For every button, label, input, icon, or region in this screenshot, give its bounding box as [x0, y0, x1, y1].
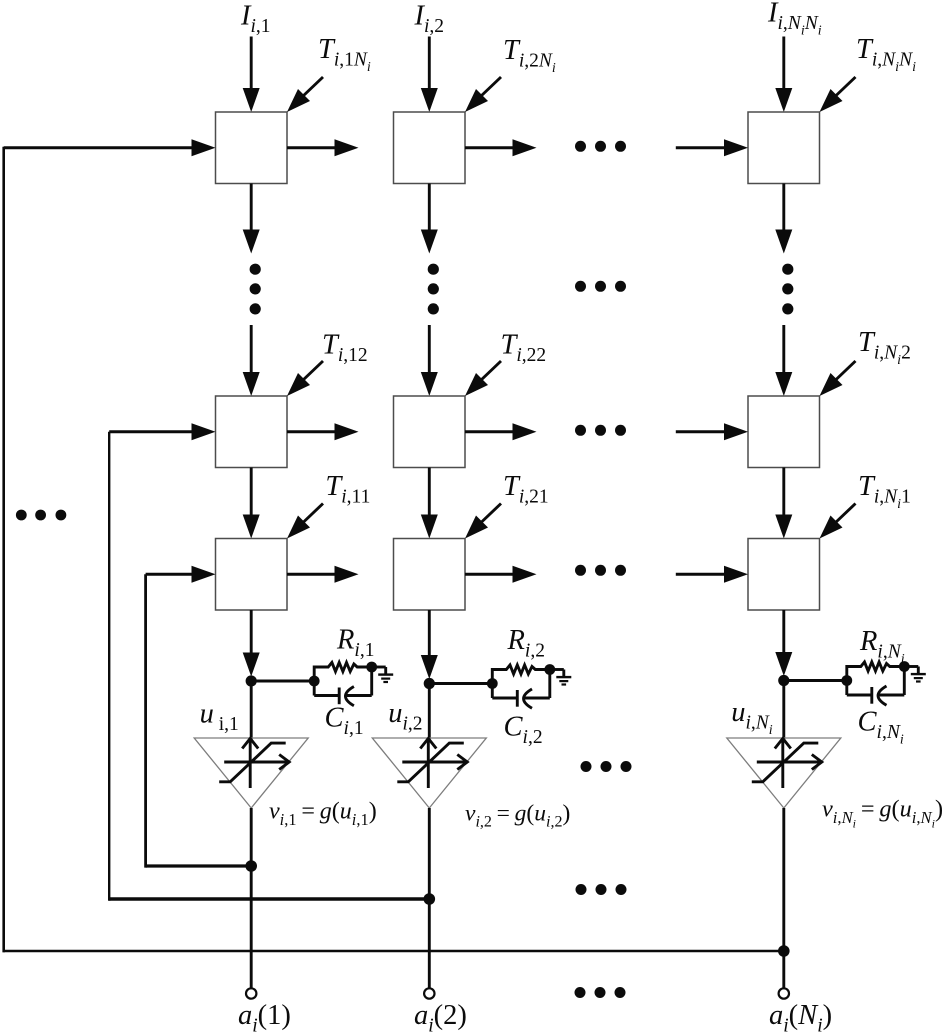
wire input I column 3	[775, 37, 792, 113]
label C_i,3	[858, 707, 904, 748]
multiplier block T row2 col3	[748, 396, 820, 468]
wire dots to block row2 col1	[243, 325, 260, 396]
label T_i,1Ni	[318, 34, 371, 75]
wire block output row1 col2	[465, 139, 537, 156]
arrow T_i,1Ni into block	[287, 77, 323, 112]
RC right junction col3	[899, 661, 910, 672]
label T_i,11	[325, 471, 370, 508]
multiplier block T row1 col3	[748, 112, 820, 184]
op-amp triangle g col3	[727, 738, 841, 808]
wire dots to block row2 col2	[421, 325, 438, 396]
wire into block row3 col3	[676, 566, 748, 583]
horizontal ellipsis	[576, 884, 627, 895]
label T_i,22	[501, 330, 547, 367]
label C_i,2	[504, 712, 543, 749]
wire node to amplifier col3	[782, 681, 785, 741]
multiplier block T row3 col1	[216, 539, 288, 611]
wire block output row1 col1	[287, 139, 359, 156]
feedback arrow into block row1 col1	[4, 139, 216, 156]
multiplier block T row3 col2	[394, 539, 466, 611]
label u_i,1	[200, 699, 239, 736]
multiplier block T row2 col1	[216, 396, 288, 468]
arrow T_i,21 into block	[465, 504, 501, 539]
wire block row1 to dots col1	[243, 184, 260, 254]
label u_i,2	[388, 698, 422, 735]
wire block output row2 col2	[465, 423, 537, 440]
RC right junction col2	[544, 664, 555, 675]
feedback wire from a_i(2) vertical	[108, 432, 110, 901]
arrow T_i,2Ni into block	[465, 77, 501, 112]
label a_i(1)	[238, 1000, 291, 1034]
label C_i,1	[325, 703, 364, 740]
svg-text:ai(2): ai(2)	[414, 1000, 467, 1034]
wire block row2 to block row3 col1	[243, 468, 260, 539]
feedback arrow into block row3 col1	[146, 566, 216, 583]
wire input I column 1	[243, 37, 260, 113]
resistor R_i,2	[492, 665, 550, 684]
wire dots to block row2 col3	[775, 325, 792, 396]
feedback wire a_i(1) horizontal	[146, 864, 252, 867]
arrow T_i,Ni1 into block	[820, 504, 856, 539]
wire amplifier output col3	[782, 808, 785, 988]
ground col1	[372, 667, 394, 682]
input label I_i,NiNi	[767, 0, 822, 39]
RC right junction col1	[366, 662, 377, 673]
feedback wire bottom horizontal	[3, 950, 784, 953]
arrow T_i,11 into block	[287, 504, 323, 539]
multiplier block T row3 col3	[748, 539, 820, 611]
label R_i,1	[336, 625, 374, 662]
wire block output row2 col1	[287, 423, 359, 440]
wire node to amplifier col2	[428, 684, 431, 741]
input label I_i,2	[414, 1, 445, 38]
node u_i,3 junction	[778, 675, 789, 686]
vertical ellipsis col1	[250, 264, 261, 315]
node feedback col2	[424, 893, 436, 905]
label v_i,2 = g(u_i,2)	[465, 801, 570, 831]
horizontal ellipsis	[575, 141, 626, 152]
resistor R_i,1	[314, 663, 372, 682]
arrow T_i,Ni2 into block	[820, 361, 856, 396]
wire block row2 to block row3 col2	[421, 468, 438, 539]
label R_i,3	[859, 626, 905, 667]
feedback wire a_i(2) horizontal	[109, 897, 431, 901]
wire block row3 to node u col2	[421, 610, 438, 679]
wire block row3 to node u col1	[243, 610, 260, 677]
input label I_i,1	[240, 1, 271, 38]
node feedback col3	[778, 945, 790, 957]
op-amp triangle g col1	[194, 738, 308, 808]
multiplier block T row1 col2	[394, 112, 466, 184]
node feedback col1	[245, 860, 257, 872]
left ellipsis	[16, 510, 66, 521]
sigmoid symbol col2	[397, 739, 467, 789]
capacitor C_i,2	[492, 670, 550, 709]
wire node to RC col2	[429, 682, 492, 685]
sigmoid symbol col3	[752, 739, 822, 789]
op-amp triangle g col2	[372, 738, 486, 808]
output terminal a_i(1)	[246, 988, 256, 998]
RC left junction col2	[487, 678, 498, 689]
wire block row1 to dots col3	[775, 184, 792, 254]
wire node to amplifier col1	[250, 681, 253, 740]
horizontal ellipsis	[581, 761, 632, 772]
sigmoid symbol col1	[219, 739, 289, 789]
ground col3	[904, 667, 926, 682]
feedback arrow into block row2 col1	[109, 423, 215, 440]
label T_i,2Ni	[503, 35, 556, 76]
wire block row1 to dots col2	[421, 184, 438, 254]
arrow T_i,NiNi into block	[820, 77, 856, 112]
horizontal ellipsis	[575, 987, 626, 998]
label v_i,1 = g(u_i,1)	[269, 799, 377, 829]
node u_i,2 junction	[424, 678, 435, 689]
output terminal a_i(3)	[779, 988, 789, 998]
capacitor C_i,3	[847, 667, 905, 706]
wire block row3 to node u col3	[775, 610, 792, 676]
label u_i,3	[731, 697, 773, 738]
label T_i,12	[322, 330, 368, 367]
node u_i,1 junction	[246, 675, 257, 686]
horizontal ellipsis	[575, 425, 626, 436]
multiplier block T row1 col1	[216, 112, 288, 184]
multiplier block T row2 col2	[394, 396, 466, 468]
output terminal a_i(2)	[424, 988, 434, 998]
label a_i(2)	[414, 1000, 467, 1034]
wire block output row3 col1	[287, 566, 359, 583]
resistor R_i,3	[847, 662, 905, 681]
label T_i,Ni1	[858, 471, 911, 512]
feedback wire from a_i(1) vertical	[144, 574, 147, 867]
horizontal ellipsis	[575, 281, 626, 292]
label a_i(Ni)	[769, 1000, 832, 1034]
wire block output row3 col2	[465, 566, 537, 583]
wire into block row2 col3	[676, 423, 748, 440]
RC left junction col3	[841, 675, 852, 686]
wire block row2 to block row3 col3	[775, 468, 792, 539]
wire into block row1 col3	[676, 139, 748, 156]
wire input I column 2	[421, 37, 438, 113]
svg-text:ai(Ni): ai(Ni)	[769, 1000, 832, 1034]
label T_i,21	[503, 471, 549, 508]
svg-text:ai(1): ai(1)	[238, 1000, 291, 1034]
wire amplifier output col2	[428, 808, 431, 988]
vertical ellipsis col3	[782, 264, 793, 315]
wire amplifier output col1	[250, 808, 253, 988]
label T_i,Ni2	[858, 327, 911, 368]
ground col2	[550, 670, 572, 685]
label v_i,Ni = g(u_i,Ni)	[822, 796, 943, 831]
label R_i,2	[507, 625, 545, 662]
RC left junction col1	[309, 676, 320, 687]
capacitor C_i,1	[314, 667, 372, 706]
wire node to RC col3	[784, 679, 847, 682]
horizontal ellipsis	[575, 565, 626, 576]
vertical ellipsis col2	[428, 264, 439, 315]
arrow T_i,22 into block	[465, 361, 501, 396]
feedback wire from a_i(Ni) vertical left	[2, 147, 5, 953]
wire node to RC col1	[251, 680, 314, 683]
arrow T_i,12 into block	[287, 361, 323, 396]
label T_i,NiNi	[856, 34, 916, 75]
